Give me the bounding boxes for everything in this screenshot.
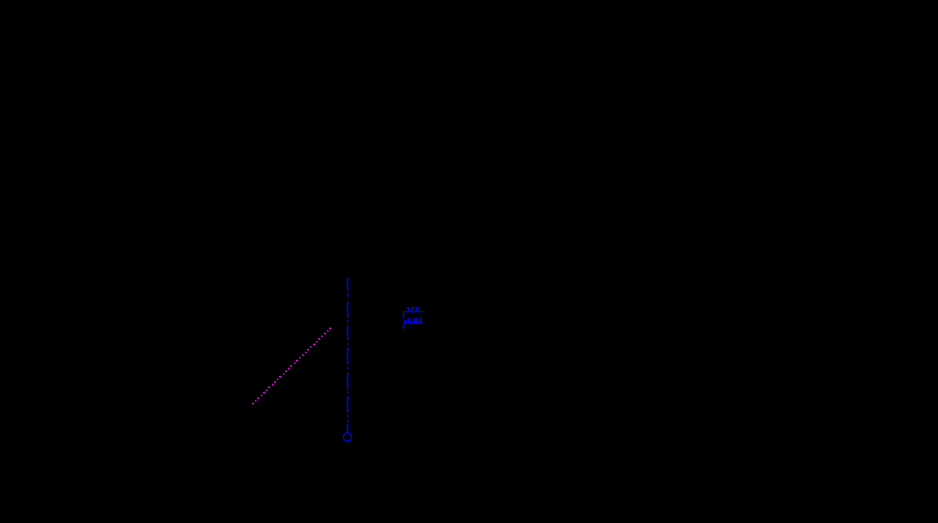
elevation label 1.011 [408,307,420,311]
leader for 1.011 [402,312,404,317]
leader for -0.150 [402,323,404,329]
magenta dotted construction line [252,328,331,405]
vertical centerline (blue dash-dot) [347,278,349,433]
datum point circle at bottom of centerline [343,433,351,441]
underline for -0.150 [403,322,422,324]
elevation label -0.150 [404,318,422,322]
underline for 1.011 [403,311,423,313]
